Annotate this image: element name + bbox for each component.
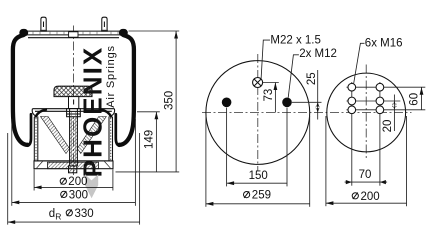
piston wall left (34, 117, 38, 161)
dim d200 left line (34, 186, 113, 188)
dim d200 right extensions (325, 116, 327, 206)
dim d200 left extensions (33, 169, 35, 190)
svg-text:149: 149 (144, 130, 156, 149)
centerline left view (72, 26, 74, 176)
v-centerline middle view (257, 54, 259, 171)
base corner hatch marks (37, 162, 111, 169)
svg-text:259: 259 (252, 190, 271, 202)
plate circle d259 (206, 61, 310, 165)
svg-text:300: 300 (69, 189, 88, 201)
piston cone right (hatched) (77, 117, 106, 154)
svg-text:60: 60 (408, 93, 420, 106)
dim 20 line (393, 95, 395, 132)
dim d300 line (12, 201, 136, 203)
dim 350 extension top (129, 30, 180, 32)
dim d300 text (61, 189, 88, 201)
bellows wall left (13, 35, 28, 145)
dim d300 extensions (11, 119, 13, 206)
hole column lines (351, 82, 353, 186)
dim 149 extension top (137, 111, 160, 113)
dim 60 line (421, 87, 423, 110)
piston base plate (34, 161, 113, 169)
svg-text:150: 150 (249, 170, 268, 182)
dim 25 arrows (316, 102, 320, 112)
dim d330 line (8, 221, 140, 223)
piston circle d200 (327, 73, 406, 152)
bellows wall right (119, 35, 134, 145)
stud dot left 2xM12 (222, 98, 232, 108)
svg-text:73: 73 (263, 89, 275, 102)
leader 6x M16 (354, 43, 365, 84)
svg-text:6x M16: 6x M16 (365, 38, 403, 50)
piston rim wing left (35, 109, 47, 117)
svg-text:R: R (55, 211, 61, 221)
dim 25 line (317, 70, 319, 120)
bolt hex nut under plate (67, 109, 81, 117)
svg-text:200: 200 (68, 176, 87, 188)
leader M22 (261, 40, 270, 79)
dim 70 line (345, 180, 388, 184)
svg-text:70: 70 (359, 169, 372, 181)
dim dR d330 text (49, 208, 94, 222)
svg-text:200: 200 (361, 191, 380, 203)
dim 350 line (175, 31, 177, 172)
stud right (M12) (101, 17, 108, 31)
bolt nut bottom (69, 166, 77, 173)
dim 150 line (227, 182, 287, 184)
piston cone left (hatched) (41, 117, 70, 154)
piston wall right (109, 117, 113, 161)
base hatch block (48, 162, 99, 169)
dim 73 line (274, 83, 276, 113)
bolt holes 6x M16 (348, 83, 384, 113)
fitting ref line (263, 82, 279, 84)
bumper (hatched) (54, 86, 92, 96)
hole row lines (347, 86, 426, 88)
dim bottom extension (116, 171, 180, 173)
watermark logo arrow (85, 174, 98, 198)
dim d200 right line (326, 202, 407, 204)
svg-text:M22 x 1.5: M22 x 1.5 (270, 34, 321, 46)
stud left (M12) (40, 17, 47, 31)
piston top plate (32, 109, 114, 117)
piston bolt shaft (70, 117, 78, 166)
h-centerline shared (202, 112, 412, 114)
svg-text:20: 20 (382, 120, 394, 133)
svg-text:350: 350 (164, 91, 176, 110)
stud line to 25 dim (292, 101, 322, 103)
air fitting M22x1.5 (253, 78, 263, 88)
top plate (21, 31, 126, 38)
dim d200 left text (60, 176, 87, 188)
svg-text:25: 25 (306, 72, 318, 85)
stud dot right 2xM12 (282, 98, 292, 108)
dim d259 text (244, 190, 271, 202)
bellows bead left (19, 29, 28, 37)
leader 2x M12 (288, 55, 299, 98)
svg-text:330: 330 (75, 208, 94, 220)
svg-text:2x M12: 2x M12 (299, 48, 337, 60)
svg-text:Air Springs: Air Springs (105, 45, 117, 108)
dim d259 extensions (205, 116, 207, 207)
svg-text:d: d (49, 208, 55, 220)
plate center notch (69, 32, 78, 37)
bellows bead right (119, 29, 128, 37)
v-centerline right view (365, 65, 367, 159)
piston rim wing right (100, 109, 112, 117)
dim d200 right text (352, 191, 379, 203)
dim 20 arrows (392, 101, 396, 110)
bolt head block (69, 97, 79, 109)
dim 149 line (155, 112, 157, 172)
dim d259 line (206, 203, 310, 205)
dim d330 extensions (7, 133, 9, 225)
dim 150 extensions (226, 108, 228, 187)
